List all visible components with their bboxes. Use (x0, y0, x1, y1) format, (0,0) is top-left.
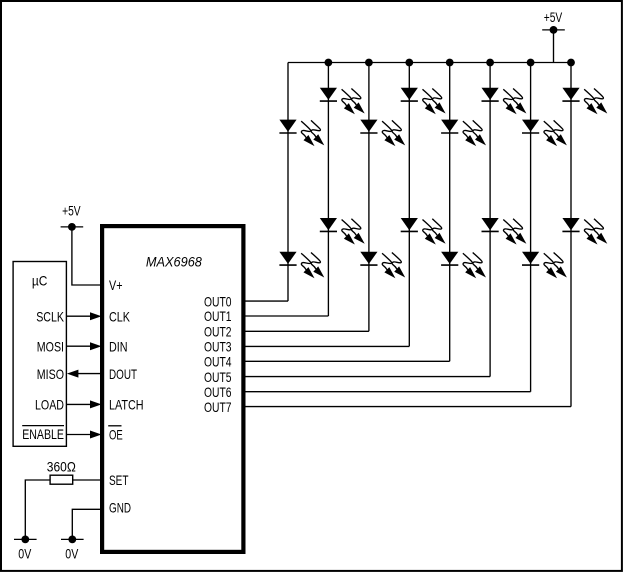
wire LED column 4 (408, 63, 410, 347)
wire OUT5 to column 6 (244, 376, 491, 378)
svg-text:SET: SET (109, 472, 129, 488)
LED D4A column 4 top (401, 88, 446, 115)
svg-text:OUT4: OUT4 (204, 354, 232, 370)
junction node rail/column 6 (486, 59, 494, 67)
svg-text:DOUT: DOUT (109, 366, 137, 382)
junction node rail/column 2 (325, 59, 333, 67)
ground terminal 0V (right) (61, 536, 84, 562)
svg-text:OUT0: OUT0 (204, 293, 232, 309)
LED D7A column 7 top (522, 120, 567, 147)
svg-text:OUT7: OUT7 (204, 399, 232, 415)
microcontroller box µC (13, 262, 66, 447)
wire OUT2 to column 3 (244, 330, 369, 332)
wire LED column 1 (287, 63, 289, 302)
wire MOSI to DIN with arrow (66, 342, 101, 350)
wire OUT0 to column 1 (244, 300, 289, 302)
LED D5A column 5 top (441, 120, 486, 147)
wire LED column 2 (327, 63, 329, 317)
+5V rail wire (288, 62, 571, 64)
wire OUT1 to column 2 (244, 315, 329, 317)
svg-text:OUT3: OUT3 (204, 339, 232, 355)
wire OUT6 to column 7 (244, 391, 531, 393)
svg-text:LATCH: LATCH (109, 397, 144, 413)
svg-text:GND: GND (109, 500, 131, 516)
svg-text:V+: V+ (109, 277, 123, 293)
svg-text:MOSI: MOSI (37, 339, 64, 355)
LED D5B column 5 bottom (441, 252, 486, 279)
LED D2A column 2 top (320, 88, 365, 115)
svg-text:CLK: CLK (109, 309, 131, 325)
svg-text:DIN: DIN (109, 339, 128, 355)
LED D1A column 1 top (279, 120, 324, 147)
wire OUT4 to column 5 (244, 360, 450, 362)
LED D2B column 2 bottom (320, 218, 365, 245)
wire LED column 3 (368, 63, 370, 332)
svg-text:OE: OE (109, 426, 123, 442)
wire DOUT to MISO with arrow (67, 370, 102, 378)
ENABLE label with overline (22, 426, 64, 442)
LED D6B column 6 bottom (482, 218, 527, 245)
wire SCLK to CLK with arrow (66, 312, 101, 320)
LED D4B column 4 bottom (401, 218, 446, 245)
wire GND pin to 0V (72, 509, 102, 539)
LED D3B column 3 bottom (360, 252, 405, 279)
svg-text:+5V: +5V (62, 203, 81, 219)
wire resistor to 0V (25, 480, 50, 539)
svg-text:360Ω: 360Ω (47, 459, 76, 475)
wire LED column 8 (570, 63, 572, 407)
LED D1B column 1 bottom (279, 252, 324, 279)
svg-text:LOAD: LOAD (35, 397, 64, 413)
resistor R1 body (50, 475, 73, 484)
svg-text:OUT6: OUT6 (204, 384, 232, 400)
wire OUT3 to column 4 (244, 345, 410, 347)
svg-text:ENABLE: ENABLE (22, 426, 64, 442)
LED D8A column 8 top (562, 88, 607, 115)
wire +5V to V+ pin (72, 227, 102, 285)
LED D8B column 8 bottom (562, 218, 607, 245)
pin label OE with overline (108, 426, 123, 443)
wire resistor to SET pin (73, 479, 102, 481)
LED D7B column 7 bottom (522, 252, 567, 279)
wire ENABLE to OE with arrow (66, 431, 101, 439)
junction node rail/column 8 (567, 59, 575, 67)
junction node rail/column 5 (446, 59, 454, 67)
svg-text:OUT2: OUT2 (204, 324, 232, 340)
wire LED column 5 (449, 63, 451, 362)
svg-text:MISO: MISO (37, 366, 64, 382)
svg-text:µC: µC (32, 272, 48, 288)
svg-text:0V: 0V (18, 546, 32, 562)
svg-text:+5V: +5V (544, 9, 563, 25)
svg-text:OUT1: OUT1 (204, 308, 232, 324)
LED D6A column 6 top (482, 88, 527, 115)
op-amp U1 MAX6968 IC body (102, 226, 243, 552)
junction node rail/column 3 (365, 59, 373, 67)
wire LOAD to LATCH with arrow (66, 400, 101, 408)
LED D3A column 3 top (360, 120, 405, 147)
junction node rail/column 4 (405, 59, 413, 67)
wire +5V to LED rail (553, 30, 555, 63)
+5V supply terminal (top) (542, 9, 565, 34)
wire LED column 6 (489, 63, 491, 377)
svg-text:SCLK: SCLK (36, 309, 64, 325)
svg-text:MAX6968: MAX6968 (146, 254, 202, 270)
ground terminal 0V (left) (14, 536, 37, 562)
svg-text:OUT5: OUT5 (204, 369, 232, 385)
junction node rail/column 7 (527, 59, 535, 67)
wire OUT7 to column 8 (244, 406, 572, 408)
+5V supply terminal (left) (61, 203, 84, 231)
wire LED column 7 (530, 63, 532, 392)
svg-text:0V: 0V (65, 546, 79, 562)
